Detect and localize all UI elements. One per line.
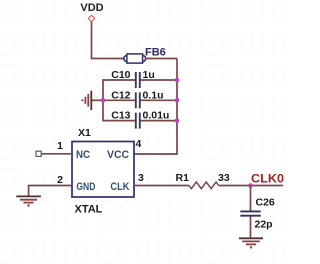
svg-text:VCC: VCC — [107, 149, 129, 161]
IC X1 XTAL — [72, 127, 134, 216]
wire VDD stem — [91, 22, 93, 59]
svg-text:33: 33 — [218, 172, 230, 184]
capacitor C10 — [102, 69, 178, 88]
wire R1 to CLK0 — [219, 185, 283, 187]
svg-text:0.1u: 0.1u — [143, 89, 164, 101]
wire C26 to ground — [250, 217, 252, 238]
resistor R1 — [176, 172, 230, 189]
svg-text:CLK: CLK — [110, 181, 129, 193]
svg-text:GND: GND — [76, 181, 95, 193]
power port VDD — [80, 2, 103, 22]
svg-text:1: 1 — [57, 140, 63, 152]
ground (bottom left) — [16, 196, 41, 206]
port square on pin 1 — [36, 151, 41, 156]
svg-text:3: 3 — [138, 172, 144, 184]
junction left rail — [101, 98, 106, 103]
capacitor C26 — [240, 197, 275, 231]
wire CLK0 down to C26 — [250, 186, 252, 211]
wire ground stub left — [92, 99, 104, 101]
svg-text:FB6: FB6 — [145, 46, 166, 58]
wire FB6 to right rail — [145, 58, 177, 60]
wire right rail vertical — [134, 59, 177, 155]
ferrite bead FB6 — [124, 46, 166, 63]
wire pin 1 — [41, 153, 72, 155]
svg-text:1u: 1u — [143, 69, 155, 81]
svg-text:C12: C12 — [111, 89, 130, 101]
wire VDD to FB6 — [91, 58, 125, 60]
junction right rail row1 — [175, 78, 180, 83]
ground (bottom right) — [239, 238, 263, 248]
wire left rail vertical — [102, 80, 104, 121]
svg-text:C26: C26 — [256, 197, 275, 209]
svg-text:4: 4 — [136, 138, 142, 150]
svg-text:X1: X1 — [78, 127, 91, 139]
svg-text:22p: 22p — [255, 219, 273, 231]
svg-text:NC: NC — [76, 149, 90, 161]
capacitor C12 — [102, 89, 178, 108]
svg-text:C10: C10 — [111, 69, 130, 81]
svg-text:C13: C13 — [111, 110, 130, 122]
svg-text:XTAL: XTAL — [75, 204, 103, 216]
svg-text:0.01u: 0.01u — [143, 110, 170, 122]
junction CLK0 node — [248, 183, 253, 188]
wire pin 3 to R1 — [134, 185, 189, 187]
capacitor C13 — [102, 110, 178, 129]
junction right rail row2 — [175, 98, 180, 103]
ground (left, rotated) — [81, 91, 91, 110]
svg-text:CLK0: CLK0 — [251, 174, 284, 186]
svg-text:R1: R1 — [176, 172, 190, 184]
wire pin 2 to ground — [29, 186, 72, 196]
svg-text:VDD: VDD — [80, 2, 103, 14]
junction right rail row3 — [175, 118, 180, 123]
svg-text:2: 2 — [57, 174, 63, 186]
